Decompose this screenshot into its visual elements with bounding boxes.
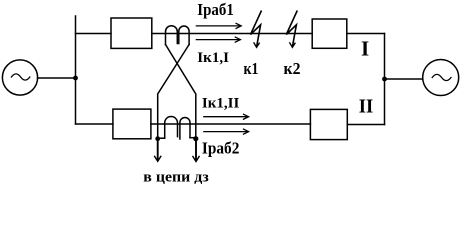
svg-text:Iраб2: Iраб2 (202, 139, 240, 158)
arrow to relay circuit (right lead) (193, 139, 200, 162)
breaker Q1 (111, 18, 152, 48)
svg-text:II: II (359, 96, 374, 118)
arrow Iраб2 (below wire of line II) (203, 129, 248, 135)
svg-text:Iк1,I: Iк1,I (197, 50, 229, 66)
wire G1 to bus A (38, 77, 76, 79)
junction dot on bus B (382, 77, 387, 82)
svg-text:I: I (361, 37, 369, 61)
fault k2 (short-circuit bolt) (286, 11, 297, 48)
breaker Q2 (312, 19, 347, 48)
arrow Iраб1 (top current arrow) (196, 23, 242, 29)
wire line II from Q3 to Q4 (151, 123, 311, 125)
bus B (right busbar) (384, 34, 386, 125)
breaker Q3 (113, 109, 151, 139)
current transformer TA2 (158, 116, 196, 139)
wire line I from Q1 to Q2 (152, 33, 312, 35)
secondary wire TA1-TA2 crossing (left-top to right-bottom) (166, 45, 196, 139)
wire bus A to breaker Q1 (line I) (76, 33, 112, 35)
junction dot right secondary node (193, 136, 198, 141)
arrow Iк1,I (below wire of line I) (196, 37, 241, 43)
junction dot on bus A (73, 76, 78, 81)
bus A (left busbar) (75, 16, 77, 124)
wire Q4 to bus B (347, 124, 384, 126)
generator G2 (right source) (423, 60, 459, 96)
secondary wire TA1-TA2 crossing (right-top to left-bottom) (158, 45, 189, 139)
breaker Q4 (310, 109, 347, 139)
svg-text:в цепи дз: в цепи дз (143, 169, 209, 185)
svg-text:Iк1,II: Iк1,II (202, 95, 240, 111)
fault k1 (short-circuit bolt) (251, 11, 262, 48)
current transformer TA1 (166, 26, 190, 45)
generator G1 (left source) (2, 60, 37, 95)
junction dot left secondary node (155, 136, 160, 141)
wire Q2 to bus B (347, 33, 385, 35)
svg-text:Iраб1: Iраб1 (197, 0, 234, 19)
wire bus A to breaker Q3 (line II) (76, 123, 113, 125)
svg-text:к1: к1 (244, 59, 259, 78)
wire bus B to G2 (385, 78, 423, 80)
arrow Iк1,II (above wire of line II) (203, 114, 248, 120)
svg-text:к2: к2 (284, 59, 301, 78)
arrow to relay circuit (left lead) (154, 139, 161, 162)
